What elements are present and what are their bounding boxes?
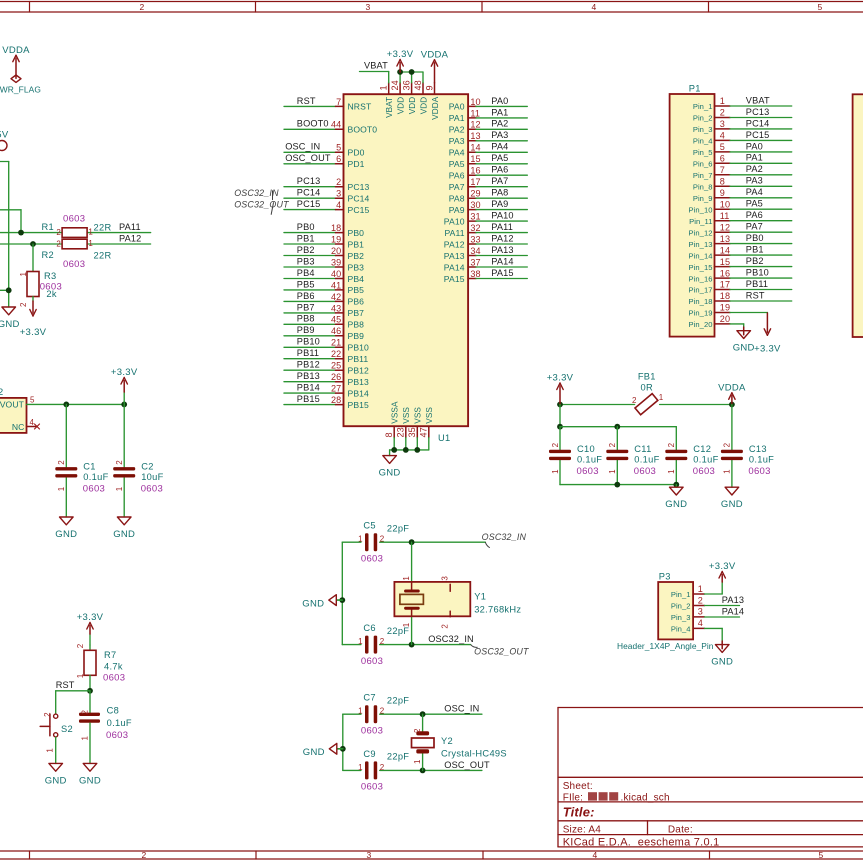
pin P3.2 Pin_2 bbox=[671, 595, 705, 610]
wire P3 pin3 to PA14 bbox=[705, 616, 740, 618]
svg-text:C8: C8 bbox=[107, 706, 119, 716]
svg-text:13: 13 bbox=[470, 131, 480, 141]
svg-text:2: 2 bbox=[57, 460, 66, 465]
wire VDD rail bbox=[399, 72, 401, 83]
wire C12 bbox=[675, 427, 677, 450]
svg-text:VSS: VSS bbox=[414, 407, 423, 424]
connector P2 partial body bbox=[853, 94, 863, 337]
svg-text:2: 2 bbox=[380, 637, 385, 646]
wire P1 pin 15 to net label PB2 bbox=[730, 256, 792, 267]
wire cap top rail bbox=[560, 426, 676, 428]
svg-text:PA0: PA0 bbox=[491, 96, 508, 106]
pin U1.27 PB14 wire and net label PB14 bbox=[284, 383, 369, 399]
svg-text:0603: 0603 bbox=[361, 726, 383, 737]
ferrite bead FB1 0R bbox=[632, 371, 664, 414]
svg-text:2: 2 bbox=[43, 712, 52, 717]
svg-text:+3.3V: +3.3V bbox=[754, 343, 781, 354]
junction bbox=[121, 402, 127, 408]
svg-text:9: 9 bbox=[720, 188, 725, 198]
wire C1 bottom bbox=[65, 478, 67, 517]
wire P1 pin 14 to net label PB1 bbox=[730, 245, 792, 256]
svg-text:GND: GND bbox=[55, 529, 77, 540]
wire +3.3V rail to FB1 bbox=[560, 404, 635, 406]
junction bbox=[420, 711, 426, 717]
svg-text:11: 11 bbox=[470, 108, 480, 118]
leader hook OSC32_IN bbox=[485, 542, 490, 548]
capacitor C9 22pF bbox=[358, 749, 409, 793]
svg-text:15: 15 bbox=[470, 154, 480, 164]
svg-text:2: 2 bbox=[551, 442, 560, 447]
junction bbox=[614, 424, 620, 430]
svg-text:VBAT: VBAT bbox=[746, 95, 770, 105]
pin U1.20 PB2 wire and net label PB2 bbox=[284, 245, 364, 261]
svg-text:38: 38 bbox=[470, 269, 480, 279]
svg-text:C10: C10 bbox=[577, 444, 595, 454]
svg-text:0603: 0603 bbox=[63, 213, 85, 224]
svg-text:PB2: PB2 bbox=[297, 245, 315, 255]
svg-text:C11: C11 bbox=[634, 444, 651, 454]
svg-text:0.1uF: 0.1uF bbox=[577, 455, 602, 465]
svg-text:2: 2 bbox=[56, 240, 61, 249]
svg-text:4: 4 bbox=[591, 2, 596, 12]
svg-text:P1: P1 bbox=[689, 84, 701, 94]
svg-text:+3.3V: +3.3V bbox=[77, 612, 104, 623]
wire R7 top bbox=[89, 645, 91, 651]
svg-text:C6: C6 bbox=[363, 623, 375, 633]
pin U1.4 PC15 wire and net label PC15 bbox=[284, 199, 370, 215]
svg-text:Pin_4: Pin_4 bbox=[693, 137, 713, 146]
svg-text:PA6: PA6 bbox=[746, 210, 763, 220]
svg-text:1: 1 bbox=[358, 707, 363, 716]
svg-text:20: 20 bbox=[720, 314, 730, 324]
wire VOUT rail 3.3V bbox=[27, 403, 125, 405]
wire P1 pin 7 to net label PA2 bbox=[730, 164, 792, 175]
svg-text:VBAT: VBAT bbox=[364, 61, 388, 71]
pin U1.26 PB13 wire and net label PB13 bbox=[284, 371, 369, 387]
svg-text:0603: 0603 bbox=[106, 730, 128, 741]
svg-text:16: 16 bbox=[470, 166, 480, 176]
svg-text:OSC32_OUT: OSC32_OUT bbox=[234, 199, 289, 209]
svg-text:PA11: PA11 bbox=[119, 222, 141, 232]
capacitor C10 0.1uF bbox=[549, 442, 602, 477]
svg-text:11: 11 bbox=[720, 211, 730, 221]
svg-text:VDDA: VDDA bbox=[431, 96, 440, 120]
svg-text:17: 17 bbox=[470, 177, 480, 187]
pin U1.11 PA1 wire and net label PA1 bbox=[449, 107, 528, 123]
svg-text:6: 6 bbox=[336, 154, 341, 164]
svg-text:7: 7 bbox=[336, 97, 341, 107]
svg-text:PB4: PB4 bbox=[297, 268, 315, 278]
svg-text:3: 3 bbox=[366, 850, 371, 860]
wire P1 pin 17 to net label PB11 bbox=[730, 279, 792, 290]
svg-text:4: 4 bbox=[720, 131, 725, 141]
pin U1.15 PA5 wire and net label PA5 bbox=[449, 153, 528, 169]
svg-text:C1: C1 bbox=[83, 462, 95, 472]
pin U1.47 VSS bottom bbox=[419, 407, 435, 450]
svg-text:PA7: PA7 bbox=[746, 222, 763, 232]
svg-text:2: 2 bbox=[667, 442, 676, 447]
wire VBAT bbox=[388, 72, 390, 83]
svg-text:PB4: PB4 bbox=[348, 274, 365, 284]
svg-text:Pin_1: Pin_1 bbox=[693, 102, 713, 111]
svg-text:3: 3 bbox=[441, 576, 450, 581]
svg-text:PB10: PB10 bbox=[348, 343, 370, 353]
svg-text:Size: A4: Size: A4 bbox=[563, 824, 602, 835]
svg-text:PA15: PA15 bbox=[491, 268, 513, 278]
svg-text:Date:: Date: bbox=[668, 824, 693, 835]
svg-text:Y2: Y2 bbox=[441, 736, 453, 746]
svg-text:1: 1 bbox=[358, 763, 363, 772]
svg-text:10: 10 bbox=[720, 199, 730, 209]
svg-text:PB5: PB5 bbox=[348, 285, 365, 295]
wire C2 top bbox=[123, 404, 125, 467]
pin P1.8 Pin_8 bbox=[693, 177, 730, 192]
svg-text:4.7k: 4.7k bbox=[104, 661, 123, 671]
svg-text:1: 1 bbox=[46, 748, 55, 753]
pin U1.16 PA6 wire and net label PA6 bbox=[449, 165, 528, 181]
svg-text:Pin_3: Pin_3 bbox=[671, 613, 691, 622]
svg-text:PB10: PB10 bbox=[297, 337, 320, 347]
pin U1.37 PA14 wire and net label PA14 bbox=[444, 256, 527, 272]
wire P1 pin 16 to net label PB10 bbox=[730, 268, 792, 279]
crystal Y1 32.768kHz body bbox=[394, 576, 521, 629]
power +3.3V above C2 bbox=[111, 367, 138, 392]
svg-text:PB3: PB3 bbox=[348, 262, 365, 272]
pin U1.32 PA11 wire and net label PA11 bbox=[444, 222, 527, 238]
pin P1.18 Pin_18 bbox=[689, 291, 731, 306]
svg-text:GND: GND bbox=[113, 529, 135, 540]
ground GND under C2 bbox=[113, 517, 135, 540]
wire gnd vertical C7-C9 bbox=[342, 714, 344, 770]
wire P1 pin 18 to net label RST bbox=[730, 290, 792, 301]
svg-text:2k: 2k bbox=[46, 289, 56, 299]
svg-text:0603: 0603 bbox=[103, 673, 125, 684]
wire P1 pin 8 to net label PA3 bbox=[730, 176, 792, 187]
svg-text:Pin_5: Pin_5 bbox=[693, 148, 713, 157]
svg-text:0603: 0603 bbox=[361, 554, 383, 565]
svg-text:BOOT0: BOOT0 bbox=[297, 119, 329, 129]
ground GND P1 pin20 bbox=[733, 327, 755, 354]
svg-text:23: 23 bbox=[396, 427, 406, 437]
svg-text:2: 2 bbox=[380, 535, 385, 544]
svg-text:2: 2 bbox=[720, 108, 725, 118]
svg-text:PC13: PC13 bbox=[297, 176, 321, 186]
svg-text:41: 41 bbox=[331, 280, 341, 290]
pin U1.38 PA15 wire and net label PA15 bbox=[444, 268, 527, 284]
wire R1 to PA11 label bbox=[87, 232, 151, 234]
svg-text:PA8: PA8 bbox=[449, 194, 465, 204]
wire R1 row PA11 bbox=[0, 232, 62, 234]
svg-text:R3: R3 bbox=[44, 271, 56, 281]
wire C7 row left bbox=[343, 713, 361, 715]
wire P1 pin 10 to net label PA5 bbox=[730, 199, 792, 210]
svg-text:PWR_FLAG: PWR_FLAG bbox=[0, 84, 41, 94]
svg-text:Pin_16: Pin_16 bbox=[689, 274, 713, 283]
pin U1.45 PB8 wire and net label PB8 bbox=[284, 314, 364, 330]
svg-text:Pin_2: Pin_2 bbox=[671, 602, 691, 611]
svg-text:GND: GND bbox=[303, 747, 325, 758]
svg-text:8: 8 bbox=[384, 432, 394, 437]
svg-text:.kicad_sch: .kicad_sch bbox=[621, 792, 670, 803]
pin P1.2 Pin_2 bbox=[693, 108, 730, 123]
svg-text:37: 37 bbox=[470, 257, 480, 267]
svg-text:+3.3V: +3.3V bbox=[111, 367, 138, 378]
pin U1.29 PA8 wire and net label PA8 bbox=[449, 188, 528, 204]
svg-text:2: 2 bbox=[380, 707, 385, 716]
svg-text:22: 22 bbox=[331, 349, 341, 359]
svg-text:PB7: PB7 bbox=[348, 308, 365, 318]
wire upper branch to R1 row bbox=[0, 209, 21, 211]
svg-text:PA6: PA6 bbox=[449, 171, 465, 181]
svg-text:FB1: FB1 bbox=[638, 371, 656, 381]
wire C9 row right to OSC_OUT bbox=[380, 769, 423, 771]
resistor R2 bbox=[56, 239, 93, 249]
svg-text:NRST: NRST bbox=[348, 102, 372, 112]
pin P3.3 Pin_3 bbox=[671, 607, 705, 622]
svg-text:VSS: VSS bbox=[425, 407, 434, 424]
svg-text:0603: 0603 bbox=[361, 782, 383, 793]
svg-text:9: 9 bbox=[425, 85, 435, 90]
svg-text:PB1: PB1 bbox=[297, 233, 315, 243]
svg-text:0.1uF: 0.1uF bbox=[83, 472, 108, 482]
svg-text:14: 14 bbox=[720, 245, 730, 255]
svg-text:P3: P3 bbox=[659, 572, 671, 582]
svg-text:47: 47 bbox=[419, 427, 429, 437]
wire P1 pin 4 to net label PC15 bbox=[730, 130, 792, 141]
capacitor C5 22pF bbox=[358, 521, 409, 565]
svg-text:1: 1 bbox=[57, 486, 66, 491]
power VDDA above U1 bbox=[421, 49, 449, 82]
svg-text:1: 1 bbox=[19, 272, 28, 277]
label R1 fields bbox=[42, 213, 112, 232]
svg-text:3: 3 bbox=[336, 189, 341, 199]
pin P1.20 Pin_20 bbox=[689, 314, 731, 329]
svg-text:PA3: PA3 bbox=[449, 136, 465, 146]
svg-text:5: 5 bbox=[817, 2, 822, 12]
ground GND crystal Y1 bbox=[302, 595, 342, 610]
capacitor C12 0.1uF bbox=[665, 442, 718, 477]
svg-text:+3.3V: +3.3V bbox=[547, 373, 574, 384]
svg-text:PB15: PB15 bbox=[297, 394, 320, 404]
svg-text:NC: NC bbox=[12, 422, 25, 432]
pin U1.1 VBAT top bbox=[379, 83, 394, 118]
svg-text:22R: 22R bbox=[94, 223, 112, 233]
svg-text:Pin_18: Pin_18 bbox=[689, 297, 713, 306]
svg-text:45: 45 bbox=[331, 315, 341, 325]
svg-text:PA12: PA12 bbox=[444, 239, 465, 249]
svg-text:0603: 0603 bbox=[63, 259, 85, 270]
svg-text:PB0: PB0 bbox=[297, 222, 315, 232]
svg-text:R2: R2 bbox=[42, 250, 54, 260]
svg-text:PA15: PA15 bbox=[444, 274, 465, 284]
svg-text:0.1uF: 0.1uF bbox=[634, 455, 659, 465]
svg-text:PD1: PD1 bbox=[348, 159, 365, 169]
pin U1.12 PA2 wire and net label PA2 bbox=[449, 119, 528, 135]
svg-text:PB14: PB14 bbox=[348, 388, 370, 398]
svg-text:5: 5 bbox=[818, 850, 823, 860]
pin U1.14 PA4 wire and net label PA4 bbox=[449, 142, 528, 158]
svg-text:PA12: PA12 bbox=[491, 233, 513, 243]
pin U1.35 VSS bottom bbox=[407, 407, 423, 450]
connector P3 body bbox=[658, 582, 693, 639]
svg-text:U1: U1 bbox=[438, 433, 450, 443]
svg-text:PA8: PA8 bbox=[491, 188, 508, 198]
junction bbox=[729, 402, 735, 408]
wire P1 pin 11 to net label PA6 bbox=[730, 210, 792, 221]
svg-text:+5V: +5V bbox=[0, 129, 9, 140]
svg-text:1: 1 bbox=[76, 673, 85, 678]
svg-text:44: 44 bbox=[331, 120, 341, 130]
junction bbox=[673, 482, 679, 488]
junction bbox=[63, 402, 69, 408]
pin U1.30 PA9 wire and net label PA9 bbox=[449, 199, 528, 215]
svg-text:Pin_12: Pin_12 bbox=[689, 228, 713, 237]
svg-text:0R: 0R bbox=[641, 382, 653, 392]
svg-text:FIle:: FIle: bbox=[563, 792, 583, 803]
svg-text:S2: S2 bbox=[61, 724, 73, 734]
svg-text:RST: RST bbox=[746, 290, 765, 300]
svg-text:0603: 0603 bbox=[141, 483, 163, 494]
pin U1.3 PC14 wire and net label PC14 bbox=[284, 188, 370, 204]
wire P1 pin 2 to net label PC13 bbox=[730, 107, 792, 118]
svg-text:0603: 0603 bbox=[693, 466, 715, 477]
svg-text:PA5: PA5 bbox=[746, 199, 763, 209]
svg-text:VDD: VDD bbox=[397, 97, 406, 115]
svg-text:17: 17 bbox=[720, 280, 730, 290]
power +3.3V below R3 bbox=[20, 301, 47, 338]
wire C10 bbox=[559, 427, 561, 450]
junction bbox=[420, 768, 426, 774]
svg-text:PA14: PA14 bbox=[491, 256, 513, 266]
svg-text:2: 2 bbox=[141, 850, 146, 860]
power +3.3V left of FB1 bbox=[547, 373, 574, 405]
wire C9 row left bbox=[343, 769, 361, 771]
svg-text:14: 14 bbox=[470, 143, 480, 153]
pin U1.46 PB9 wire and net label PB9 bbox=[284, 325, 364, 341]
svg-text:VDDA: VDDA bbox=[2, 45, 30, 56]
wire P1 pin 13 to net label PB0 bbox=[730, 233, 792, 244]
svg-text:2: 2 bbox=[632, 396, 637, 405]
pin U1.31 PA10 wire and net label PA10 bbox=[444, 211, 527, 227]
svg-text:Pin_6: Pin_6 bbox=[693, 160, 713, 169]
svg-text:43: 43 bbox=[331, 303, 341, 313]
svg-text:0.1uF: 0.1uF bbox=[749, 455, 774, 465]
svg-text:42: 42 bbox=[331, 292, 341, 302]
wire C5 row right to OSC32_IN bbox=[380, 541, 412, 543]
svg-text:PA13: PA13 bbox=[491, 245, 513, 255]
resistor R7 4.7k bbox=[76, 643, 125, 683]
label R2 fields bbox=[42, 250, 112, 270]
svg-text:1: 1 bbox=[698, 584, 703, 594]
svg-text:PA1: PA1 bbox=[491, 107, 508, 117]
pin U1.48 VDD top bbox=[413, 80, 428, 114]
svg-text:Pin_4: Pin_4 bbox=[671, 625, 691, 634]
svg-text:PB0: PB0 bbox=[746, 233, 764, 243]
pin P1.14 Pin_14 bbox=[689, 245, 731, 260]
svg-text:PB11: PB11 bbox=[297, 348, 319, 358]
svg-text:PB12: PB12 bbox=[348, 366, 370, 376]
svg-text:C9: C9 bbox=[363, 749, 375, 759]
pin P1.12 Pin_12 bbox=[689, 222, 731, 237]
pin U1.40 PB4 wire and net label PB4 bbox=[284, 268, 364, 284]
svg-text:PA7: PA7 bbox=[449, 182, 465, 192]
pin U1.9 VDDA top bbox=[425, 83, 440, 120]
svg-text:PB5: PB5 bbox=[297, 279, 315, 289]
pin U1.42 PB6 wire and net label PB6 bbox=[284, 291, 364, 307]
pin P1.9 Pin_9 bbox=[693, 188, 730, 203]
svg-text:GND: GND bbox=[79, 775, 101, 786]
wire P1 pin 12 to net label PA7 bbox=[730, 222, 792, 233]
svg-text:22pF: 22pF bbox=[387, 523, 409, 533]
svg-text:Pin_8: Pin_8 bbox=[693, 183, 713, 192]
svg-text:PC15: PC15 bbox=[746, 130, 770, 140]
svg-text:PB2: PB2 bbox=[348, 251, 365, 261]
svg-text:40: 40 bbox=[331, 269, 341, 279]
svg-text:GND: GND bbox=[45, 775, 67, 786]
pin P1.6 Pin_6 bbox=[693, 154, 730, 169]
svg-text:VBAT: VBAT bbox=[385, 97, 394, 118]
wire C7 row right to OSC_IN bbox=[380, 713, 423, 715]
pin U1.28 PB15 wire and net label PB15 bbox=[284, 394, 369, 410]
svg-text:PB8: PB8 bbox=[348, 320, 365, 330]
pin P1.17 Pin_17 bbox=[689, 280, 731, 295]
svg-text:PB9: PB9 bbox=[348, 331, 365, 341]
svg-text:Pin_20: Pin_20 bbox=[689, 320, 713, 329]
pin P1.1 Pin_1 bbox=[693, 96, 730, 111]
svg-text:46: 46 bbox=[331, 326, 341, 336]
wire gnd vertical C5-C6 bbox=[341, 542, 343, 644]
svg-text:1: 1 bbox=[402, 622, 411, 627]
pin U1.7 NRST wire and net label RST bbox=[284, 96, 372, 112]
junction bbox=[339, 597, 345, 603]
svg-text:5: 5 bbox=[30, 395, 35, 404]
svg-text:2: 2 bbox=[115, 460, 124, 465]
leader hook bbox=[272, 191, 274, 200]
wire P1 pin 3 to net label PC14 bbox=[730, 118, 792, 129]
svg-text:1: 1 bbox=[379, 85, 389, 90]
svg-text:C2: C2 bbox=[141, 462, 153, 472]
svg-text:Pin_19: Pin_19 bbox=[689, 309, 713, 318]
ground GND P3 pin4 bbox=[711, 641, 733, 668]
pin U1.34 PA13 wire and net label PA13 bbox=[444, 245, 527, 261]
junction bbox=[87, 688, 93, 694]
svg-text:16: 16 bbox=[720, 268, 730, 278]
svg-text:PA3: PA3 bbox=[746, 176, 763, 186]
svg-text:26: 26 bbox=[331, 372, 341, 382]
pin U1.17 PA7 wire and net label PA7 bbox=[449, 176, 528, 192]
sheet border top ruler bbox=[0, 2, 863, 13]
svg-text:VDD: VDD bbox=[419, 97, 428, 115]
svg-text:PA6: PA6 bbox=[491, 165, 508, 175]
svg-text:PA13: PA13 bbox=[444, 251, 465, 261]
svg-text:6: 6 bbox=[720, 154, 725, 164]
pin U1.6 PD1 wire and net label OSC_OUT bbox=[284, 153, 365, 169]
pin U1.44 BOOT0 wire and net label BOOT0 bbox=[284, 119, 377, 135]
wire P1 pin 9 to net label PA4 bbox=[730, 187, 792, 198]
svg-text:PA5: PA5 bbox=[449, 159, 465, 169]
svg-text:35: 35 bbox=[407, 427, 417, 437]
svg-text:PA4: PA4 bbox=[449, 148, 465, 158]
pin P3.4 Pin_4 bbox=[671, 618, 705, 633]
svg-text:1: 1 bbox=[720, 96, 725, 106]
svg-text:Pin_2: Pin_2 bbox=[693, 114, 713, 123]
svg-text:4: 4 bbox=[30, 418, 35, 427]
svg-text:1: 1 bbox=[115, 486, 124, 491]
power flag PWR_FLAG bbox=[0, 75, 41, 94]
switch S2 push button bbox=[40, 712, 73, 753]
svg-text:PB13: PB13 bbox=[348, 377, 370, 387]
svg-text:VSSA: VSSA bbox=[391, 401, 400, 424]
